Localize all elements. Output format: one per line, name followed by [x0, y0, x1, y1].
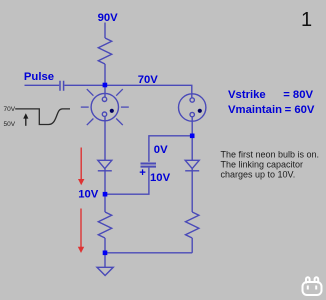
svg-text:Pulse: Pulse [24, 71, 54, 83]
neon bulb N1 glow rays [81, 89, 129, 125]
svg-text:= 80V: = 80V [283, 89, 313, 101]
node C junction [103, 251, 108, 256]
svg-text:10V: 10V [78, 188, 99, 200]
svg-text:70V: 70V [138, 74, 159, 86]
red current arrow 2 [78, 209, 84, 254]
wire neon bulb N2 to node D [191, 117, 193, 136]
svg-text:= 60V: = 60V [285, 104, 315, 116]
wire resistor R1 to node A [104, 64, 106, 85]
wire capacitor C2 to node B [105, 168, 149, 195]
neon bulb N2 bottom electrode [190, 112, 194, 116]
capacitor C1 plates [60, 81, 64, 91]
node A junction [103, 83, 108, 88]
neon bulb N1 bottom electrode [102, 112, 106, 116]
neon bulb N2 cathode dot [198, 109, 202, 113]
pulse waveform [15, 109, 70, 125]
svg-text:charges up to 10V.: charges up to 10V. [221, 169, 296, 179]
svg-text:Vmaintain: Vmaintain [228, 104, 282, 116]
wire pulse input to capacitor C1 [25, 84, 60, 86]
diode D1 [98, 160, 112, 168]
svg-text:1: 1 [301, 9, 312, 31]
wire node C to ground [104, 253, 106, 267]
wire neon bulb N1 to diode D1 [104, 116, 106, 160]
linking capacitor C2 plates [141, 164, 157, 167]
svg-text:50V: 50V [4, 121, 16, 128]
cat logo [303, 277, 322, 295]
diode D2 [185, 160, 199, 168]
wire node B to resistor R2 [104, 194, 106, 212]
svg-text:90V: 90V [98, 12, 119, 24]
neon bulb N1 envelope [91, 93, 118, 120]
neon bulb N2 envelope [179, 94, 206, 121]
resistor R3 [186, 212, 199, 238]
wire diode D1 to node B [104, 169, 106, 195]
svg-text:10V: 10V [150, 172, 171, 184]
node B junction [103, 192, 108, 197]
wire capacitor C1 to node A and to neon bulb N2 corner [64, 85, 191, 98]
neon bulb N1 top electrode [102, 97, 106, 101]
bottom rail wire node C to right branch [105, 252, 192, 254]
svg-text:Vstrike: Vstrike [228, 89, 266, 101]
wire diode D2 to resistor R3 [191, 169, 193, 212]
wire node D to diode D2 [191, 136, 193, 161]
resistor R2 [98, 212, 111, 238]
neon bulb N1 cathode glow dot [110, 109, 114, 113]
wire from 90V supply to resistor R1 [104, 23, 106, 39]
wire node A to neon bulb N1 top electrode [104, 85, 106, 97]
svg-text:0V: 0V [154, 144, 168, 156]
waveform up arrow [23, 113, 28, 126]
wire node D to linking capacitor C2 [149, 136, 192, 162]
node D junction [190, 134, 195, 139]
svg-text:+: + [139, 167, 146, 179]
resistor R1 [98, 38, 111, 64]
neon bulb N2 top electrode [190, 98, 194, 102]
ground symbol [97, 267, 113, 275]
red current arrow 1 [78, 148, 84, 186]
svg-text:The linking capacitor: The linking capacitor [221, 159, 304, 169]
cat logo eyes [307, 286, 317, 290]
svg-text:70V: 70V [4, 106, 16, 113]
wire resistor R3 to bottom rail [191, 238, 193, 253]
svg-text:The first neon bulb is on.: The first neon bulb is on. [221, 150, 320, 160]
wire resistor R2 to node C [104, 238, 106, 253]
